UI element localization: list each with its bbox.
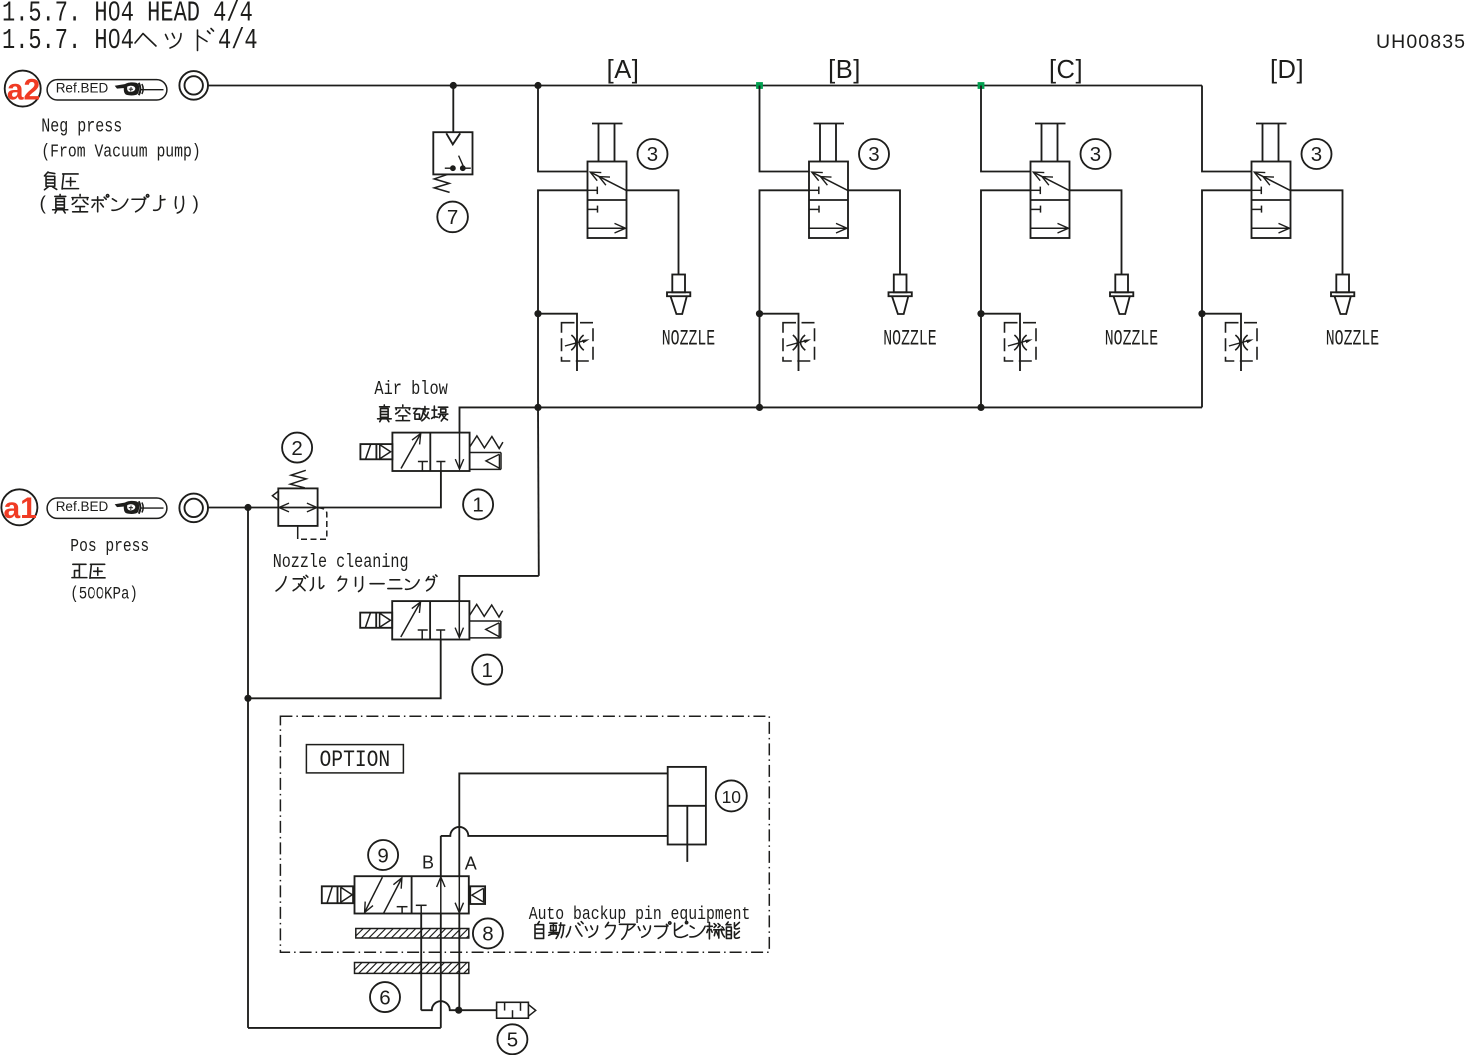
label B [422,853,434,873]
svg-text:B: B [422,853,434,873]
svg-text:4/4: 4/4 [218,24,258,57]
junction speed controller [C] [977,310,984,317]
wire: supply bottom run [248,1027,441,1029]
label A [465,853,477,873]
junction air bus [C] [977,404,984,411]
speed controller [A] [538,314,593,371]
wire: air blow bus [538,406,1202,408]
port symbol a1 (double circle) [179,494,208,523]
balloon 10 [716,780,747,811]
nozzle [A] [667,275,690,315]
svg-text:NOZZLE: NOZZLE [662,326,715,352]
pin plate 8 (hatched) [356,929,469,939]
junction nozzle cleaning supply [244,695,251,702]
balloon 2 [282,433,312,463]
svg-text:3: 3 [868,143,879,166]
svg-text:Neg press: Neg press [41,117,122,138]
svg-text:1: 1 [472,494,483,517]
junction [A] on neg press bus [534,82,541,89]
cylinder 10 (backup pin) [668,767,706,862]
wire: air blow valve output [460,407,539,432]
wire: negative pressure bus [208,85,1202,87]
nozzle [D] [1331,275,1354,315]
balloon 3 [D] [1302,139,1332,169]
balloon 3 [C] [1081,139,1111,169]
junction speed controller [B] [756,310,763,317]
node [A] label [607,56,640,84]
speed controller [C] [981,314,1036,371]
svg-text:(: ( [40,194,47,215]
solenoid valve 1 (air blow) [360,433,503,471]
valve 3 [C] (3-port mechanical) [1031,124,1070,239]
wire: valve 3 [C] to nozzle [1070,190,1122,274]
label NOZZLE [C] [1105,326,1158,352]
svg-text:3: 3 [1311,143,1322,166]
svg-text:3: 3 [1090,143,1101,166]
svg-text:5: 5 [507,1029,518,1052]
svg-text:a1: a1 [4,492,37,525]
svg-text:NOZZLE: NOZZLE [1105,326,1158,352]
wire: manifold riser to nozzle cleaning line [537,407,540,576]
svg-text:(500KPa): (500KPa) [70,584,138,604]
label NOZZLE [A] [662,326,715,352]
title block [2,0,258,57]
label Nozzle cleaning [273,552,437,591]
wire: pos press riser to option [247,698,249,1028]
reference tag Ref.BED (a2) [47,80,167,100]
solenoid valve 9 (4/2) [322,876,485,914]
wire: regulator to air blow valve [318,471,441,507]
wire: pos press line to regulator [208,507,278,509]
svg-text:NOZZLE: NOZZLE [883,326,936,352]
wire: valve 3 [B] to nozzle [848,190,900,274]
node [C] label [1049,56,1083,84]
speed controller [D] [1202,314,1257,371]
valve 3 [B] (3-port mechanical) [809,124,848,239]
svg-text:): ) [193,194,199,215]
reference tag Ref.BED (a1) [47,498,167,518]
wire: valve 3 [A] to nozzle [627,190,679,274]
valve 3 [A] (3-port mechanical) [588,124,627,239]
svg-text:a2: a2 [7,74,40,107]
svg-text:3: 3 [647,143,658,166]
svg-text:[A]: [A] [607,56,640,84]
wire: pos press riser [247,508,249,699]
svg-text:1: 1 [481,659,492,682]
svg-text:6: 6 [379,986,390,1009]
svg-text:7: 7 [447,206,458,229]
regulator 2 [272,470,326,539]
svg-text:UH00835: UH00835 [1376,31,1466,53]
nozzle [C] [1110,275,1133,315]
balloon 5 [497,1024,527,1054]
speed controller [B] [760,314,815,371]
label NOZZLE [B] [883,326,936,352]
label Air blow [374,378,448,421]
node [B] label [828,56,861,84]
label NOZZLE [D] [1326,326,1379,352]
wire: bus drop to valve 3 [B] [760,86,810,172]
drawing number UH00835 [1376,31,1466,53]
label OPTION [306,745,403,774]
balloon 6 [370,982,400,1012]
svg-text:(From Vacuum pump): (From Vacuum pump) [41,142,200,163]
wire: valve 9 A exhaust down [458,914,460,1011]
svg-text:Ref.BED: Ref.BED [56,81,109,96]
wire: valve 9 B supply down [440,914,442,1028]
wire: valve 3 [D] to nozzle [1291,190,1343,274]
option enclosure (dash-dot) [280,716,769,952]
svg-text:Nozzle cleaning: Nozzle cleaning [273,552,409,573]
wire: bottom run to plug 5 (with hop) [421,1001,496,1010]
solenoid valve 1 (nozzle cleaning) [360,601,503,639]
svg-text:Pos press: Pos press [70,536,149,557]
svg-text:NOZZLE: NOZZLE [1326,326,1379,352]
balloon 7 [437,202,468,233]
junction air bus [A] [534,404,541,411]
svg-text:[B]: [B] [828,56,861,84]
svg-text:2: 2 [291,437,302,460]
junction pos press riser [244,504,251,511]
svg-text:Air blow: Air blow [374,378,448,400]
port symbol a2 (double circle) [179,71,208,100]
label Pos press [70,536,149,604]
balloon 9 [368,840,398,870]
junction at vacuum switch drop [450,82,457,89]
wire: bus drop to valve 3 [C] [981,86,1031,172]
svg-text:[D]: [D] [1270,56,1304,84]
wire: blocked port line [A] [538,190,588,407]
wire: B line to cylinder rod side (with hop) [441,827,668,876]
svg-text:A: A [465,853,477,873]
label Auto backup pin equipment [529,905,751,940]
plug 5 (quick fitting) [497,1002,536,1018]
wire: blocked port line [B] [760,190,810,407]
svg-text:OPTION: OPTION [320,748,391,774]
balloon 1 (air blow) [463,489,493,519]
junction speed controller [D] [1198,310,1205,317]
port label a1 [1,489,37,525]
balloon 3 [A] [638,139,668,169]
wire: valve 9 port 1 down [420,914,422,1011]
svg-text:9: 9 [377,844,388,867]
wire: bus drop to valve 3 [A] [538,86,588,172]
junction [B] on neg press bus (green grip) [756,82,763,89]
wire: drop to vacuum switch 7 [452,86,454,133]
wire: blocked port line [D] [1202,190,1252,407]
balloon 1 (nozzle cleaning) [472,655,502,685]
nozzle [B] [889,275,912,315]
balloon 8 [473,918,503,948]
port label a2 [5,71,41,107]
junction at plug 5 line [455,1007,462,1014]
balloon 3 [B] [859,139,889,169]
junction speed controller [A] [534,310,541,317]
vacuum switch 7 [433,132,472,192]
junction air bus [B] [756,404,763,411]
wire: A line to cylinder cap [459,773,667,876]
valve 3 [D] (3-port mechanical) [1252,124,1291,239]
svg-text:Ref.BED: Ref.BED [56,499,109,514]
wire: nozzle cleaning valve output [459,576,539,601]
label Neg press [40,117,201,214]
junction [C] on neg press bus (green grip) [978,82,985,89]
pin plate 6 (hatched) [355,963,469,974]
svg-text:[C]: [C] [1049,56,1083,84]
wire: blocked port line [C] [981,190,1031,407]
svg-text:Auto backup pin equipment: Auto backup pin equipment [529,905,751,926]
wire: supply to nozzle cleaning valve [248,640,441,699]
node [D] label [1270,56,1304,84]
svg-text:10: 10 [722,787,742,807]
wire: bus drop to valve 3 [D] [1202,86,1252,172]
svg-text:8: 8 [482,923,493,946]
